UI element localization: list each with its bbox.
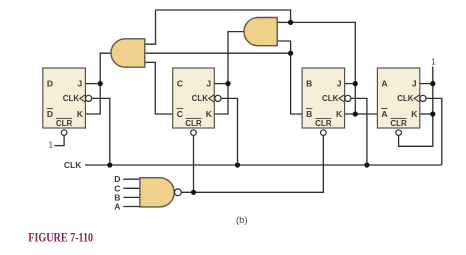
junction FF4 J xyxy=(430,81,435,86)
wire FF3 J xyxy=(345,83,356,85)
svg-text:A: A xyxy=(114,202,120,212)
svg-text:FIGURE 7-110: FIGURE 7-110 xyxy=(28,231,93,245)
wire FF4 CLK to bus xyxy=(427,98,442,165)
svg-text:D: D xyxy=(47,109,53,119)
svg-text:K: K xyxy=(77,109,84,119)
svg-text:A: A xyxy=(381,109,387,119)
svg-text:K: K xyxy=(411,109,418,119)
junction FF2 J xyxy=(225,81,230,86)
svg-text:J: J xyxy=(78,79,83,89)
svg-text:D: D xyxy=(47,79,53,89)
junction FF4 K xyxy=(430,111,435,116)
svg-text:K: K xyxy=(336,109,343,119)
wire FF1 CLK to bus xyxy=(92,98,110,165)
svg-text:C: C xyxy=(177,79,183,89)
junction B-bar net xyxy=(288,51,293,56)
svg-text:J: J xyxy=(206,79,211,89)
NAND gate G3 body xyxy=(140,178,174,207)
wire FF1 J xyxy=(85,83,100,85)
flip-flop U2 CLR bubble xyxy=(191,130,197,136)
flip-flop U1 (D) box xyxy=(43,68,86,128)
flip-flop U1 CLR bubble xyxy=(61,130,67,136)
junction NAND output xyxy=(191,190,196,195)
wire gate G1 top input xyxy=(145,10,156,44)
svg-text:CLK: CLK xyxy=(322,94,339,103)
svg-text:A: A xyxy=(381,79,387,89)
svg-text:CLR: CLR xyxy=(56,119,73,128)
flip-flop U4 clock wedge xyxy=(414,95,420,102)
wire FF4 1 rail J K CLR xyxy=(399,67,433,147)
junction gate G2 top input xyxy=(288,20,293,25)
svg-text:K: K xyxy=(206,109,213,119)
svg-text:1: 1 xyxy=(49,141,54,150)
svg-text:CLK: CLK xyxy=(397,94,414,103)
flip-flop U3 clock wedge xyxy=(339,95,345,102)
junction bus FF1 xyxy=(107,162,112,167)
svg-text:CLK: CLK xyxy=(64,160,82,170)
flip-flop U4 CLK bubble xyxy=(420,95,426,101)
flip-flop U1 clock wedge xyxy=(80,95,86,102)
svg-text:CLR: CLR xyxy=(390,119,407,128)
wire A-bar rail to FF3 J/K xyxy=(291,22,356,114)
wire FF2 J xyxy=(214,83,228,85)
svg-text:(b): (b) xyxy=(236,215,248,226)
wire FF4 J xyxy=(420,83,433,85)
svg-text:CLK: CLK xyxy=(63,94,80,103)
wire gate G1 bottom input to FF2 Cbar xyxy=(145,62,173,114)
wire NAND output to FF3 CLR xyxy=(181,136,323,193)
svg-text:B: B xyxy=(306,109,312,119)
junction FF1 J xyxy=(98,81,103,86)
AND gate G2 xyxy=(244,18,277,46)
svg-text:J: J xyxy=(337,79,342,89)
wire gate G2 output to FF2 J/K xyxy=(214,32,244,114)
junction bus FF2 xyxy=(235,162,240,167)
AND gate G1 xyxy=(111,39,145,67)
wire NAND input A xyxy=(123,206,140,208)
flip-flop U4 (A) box xyxy=(377,68,419,128)
wire gate G1 middle input xyxy=(145,52,291,54)
wire NAND input C xyxy=(123,187,140,189)
NAND gate G3 output bubble xyxy=(175,189,182,196)
junction FF3 K xyxy=(353,111,358,116)
wire FF2 CLR to NAND output xyxy=(193,136,195,193)
wire gate G2 bottom input xyxy=(277,41,290,53)
flip-flop U4 CLR bubble xyxy=(396,130,402,136)
svg-text:CLR: CLR xyxy=(315,119,332,128)
flip-flop U2 (C) box xyxy=(173,68,215,128)
flip-flop U1 CLK bubble xyxy=(86,95,92,101)
wire CLK bus xyxy=(85,164,442,166)
wire gate G2 top input xyxy=(277,21,290,23)
junction FF3 J xyxy=(353,81,358,86)
junction bus FF3 xyxy=(364,162,369,167)
svg-text:CLK: CLK xyxy=(192,94,209,103)
wire FF3 CLK to bus xyxy=(352,98,367,165)
flip-flop U2 clock wedge xyxy=(209,95,215,102)
wire NAND input D xyxy=(123,178,140,180)
wire FF3 K to FF4 Abar xyxy=(345,113,378,115)
wire top rail (A-bar net) xyxy=(156,10,291,22)
svg-text:C: C xyxy=(177,109,183,119)
wire FF2 CLK to bus xyxy=(222,98,238,165)
flip-flop U3 (B) box xyxy=(302,68,345,128)
svg-text:1: 1 xyxy=(431,58,436,67)
svg-text:J: J xyxy=(412,79,417,89)
flip-flop U3 CLK bubble xyxy=(345,95,351,101)
flip-flop U3 CLR bubble xyxy=(321,130,327,136)
wire gate G1 output to FF1 J/K xyxy=(85,53,111,114)
wire B-bar net to FF3 xyxy=(291,53,303,114)
wire FF1 CLR to 1 xyxy=(55,136,65,146)
svg-text:CLR: CLR xyxy=(185,119,202,128)
flip-flop U2 CLK bubble xyxy=(215,95,221,101)
svg-text:B: B xyxy=(306,79,312,89)
wire NAND input B xyxy=(123,196,140,198)
wire FF4 K xyxy=(420,113,433,115)
